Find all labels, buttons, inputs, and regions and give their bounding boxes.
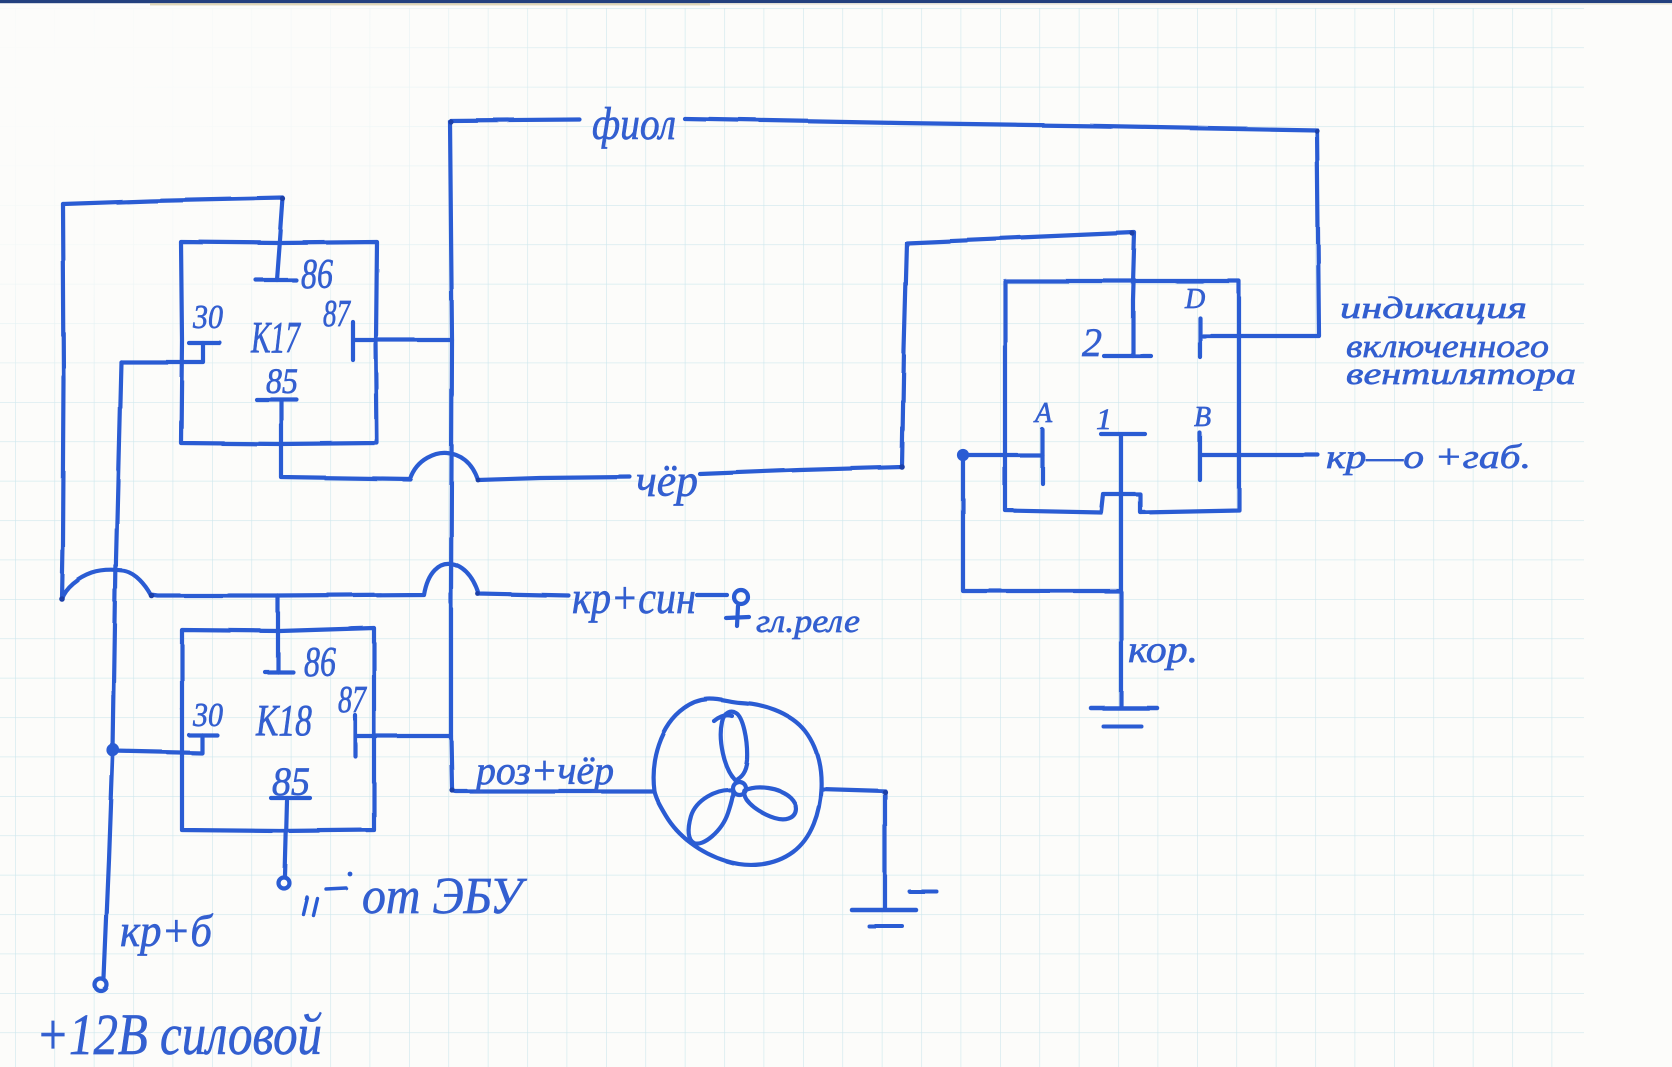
svg-text:В: В — [1194, 402, 1211, 433]
svg-text:кр+син: кр+син — [572, 573, 696, 623]
svg-text:87: 87 — [323, 293, 351, 335]
svg-text:гл.реле: гл.реле — [756, 604, 860, 640]
svg-text:К17: К17 — [250, 313, 301, 362]
svg-text:А: А — [1033, 398, 1053, 429]
svg-text:87: 87 — [338, 679, 367, 721]
svg-text:D: D — [1184, 284, 1205, 315]
svg-text:роз+чёр: роз+чёр — [473, 748, 614, 793]
svg-text:кор.: кор. — [1128, 629, 1198, 671]
svg-text:86: 86 — [301, 252, 333, 298]
svg-text:30: 30 — [192, 697, 223, 734]
svg-text:от ЭБУ: от ЭБУ — [362, 868, 528, 925]
svg-text:индикация: индикация — [1340, 290, 1527, 325]
svg-text:К18: К18 — [255, 696, 312, 745]
svg-text:кр—о +габ.: кр—о +габ. — [1326, 439, 1531, 476]
svg-text:85: 85 — [266, 361, 298, 401]
svg-text:кр+б: кр+б — [120, 905, 214, 956]
svg-text:чёр: чёр — [636, 455, 698, 506]
svg-text:85: 85 — [272, 759, 310, 804]
svg-text:30: 30 — [192, 299, 223, 336]
svg-text:вентилятора: вентилятора — [1346, 356, 1576, 391]
svg-text:1: 1 — [1096, 403, 1112, 436]
svg-text:+12В силовой: +12В силовой — [36, 1002, 322, 1067]
svg-text:2: 2 — [1082, 320, 1102, 365]
svg-text:фиол: фиол — [592, 98, 676, 149]
svg-text:86: 86 — [304, 640, 336, 686]
